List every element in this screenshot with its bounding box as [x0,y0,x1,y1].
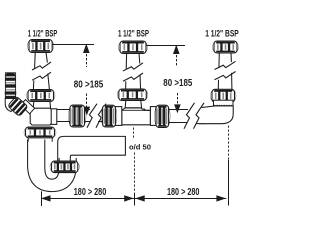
svg-text:1 1/2" BSP: 1 1/2" BSP [28,28,58,38]
trap inlet nut skirt [28,138,52,142]
extension line top left (from left BSP nut) [52,44,94,46]
svg-text:180 > 280: 180 > 280 [74,186,107,198]
middle inlet pipe lower [126,74,141,89]
bottom dim arrows center pair [124,195,145,201]
coupling nut middle inlet lower [117,89,148,101]
P-trap U-bend outer wall [28,140,77,192]
manifold pipe stub to right elbow [196,108,206,123]
bottom dim arrow right [216,195,226,201]
appliance branch elbow below nozzle [5,98,16,111]
extension line top middle (from middle BSP nut) [146,45,185,47]
right extension line solid lower part [228,160,230,206]
dimension 80>185 left: down arrow [84,94,91,116]
compression nut mid-tee right [154,105,170,127]
BSP coupling nut 1 1/2" left [27,40,54,53]
manifold pipe left section [56,110,90,122]
manifold pipe right section [168,110,188,123]
trap outlet pipe o/d 50 with elbow [58,136,126,162]
break symbol on middle inlet pipe [123,63,143,81]
coupling nut left inlet lower [26,90,55,102]
middle tee body [122,108,151,125]
dimension 80>185 right: down arrow [174,93,181,113]
manifold pipe mid-left stub [96,110,104,122]
bottom dim arrow left [41,195,51,201]
dimension 80>185 right: up arrow [173,45,180,67]
middle tee neck [125,100,141,108]
svg-text:80 >185: 80 >185 [74,79,104,91]
svg-text:180 > 280: 180 > 280 [167,186,200,198]
right inlet elbow to manifold [199,106,233,124]
trap inlet swivel nut [24,127,56,138]
appliance branch nut (45 deg ribbed) [8,96,29,116]
break symbol on right manifold pipe [184,103,204,129]
right extension line (from right elbow) dashed [228,126,230,161]
svg-text:o/d 50: o/d 50 [129,143,151,152]
appliance inlet branch tube (45 deg) [21,100,35,114]
trap outlet swivel nut [50,161,80,173]
left tee outlet flange [51,109,57,125]
right elbow nut base flange [214,100,234,106]
break symbol on left inlet pipe [32,62,51,80]
BSP coupling nut 1 1/2" right [212,41,238,53]
break symbol on right inlet pipe [215,61,236,79]
svg-text:1 1/2" BSP: 1 1/2" BSP [205,29,239,39]
dashed reference line continues to bottom dimension [134,153,136,194]
middle tee right flange [150,107,156,126]
appliance nozzle (barbed hose connector) [5,73,16,99]
left tee neck [33,101,50,109]
dashed reference line below middle tee [133,128,135,140]
break symbol on left manifold pipe [87,104,106,128]
svg-text:80 >185: 80 >185 [163,77,192,89]
middle inlet pipe upper [126,54,140,70]
BSP coupling nut 1 1/2" middle [118,41,147,54]
left inlet pipe lower [33,73,49,89]
middle tee left flange [115,107,122,126]
left inlet pipe upper [35,53,48,69]
compression nut mid-tee left [101,105,117,127]
compression nut left manifold [68,105,86,127]
dimension 80>185 left: up arrow [83,44,90,67]
P-trap U-bend inner wall [45,140,59,180]
right inlet pipe upper [219,53,232,68]
left tee body [30,108,52,125]
middle tee neck joint ticks [123,108,147,112]
bottom dimension line [42,198,227,200]
right inlet pipe lower [218,73,232,90]
left extension line bottom [41,191,43,206]
coupling nut right inlet lower [210,89,236,102]
middle tee body top line [122,109,151,111]
svg-text:1 1/2" BSP: 1 1/2" BSP [118,28,149,38]
center extension tick at bottom dimension [134,193,136,206]
